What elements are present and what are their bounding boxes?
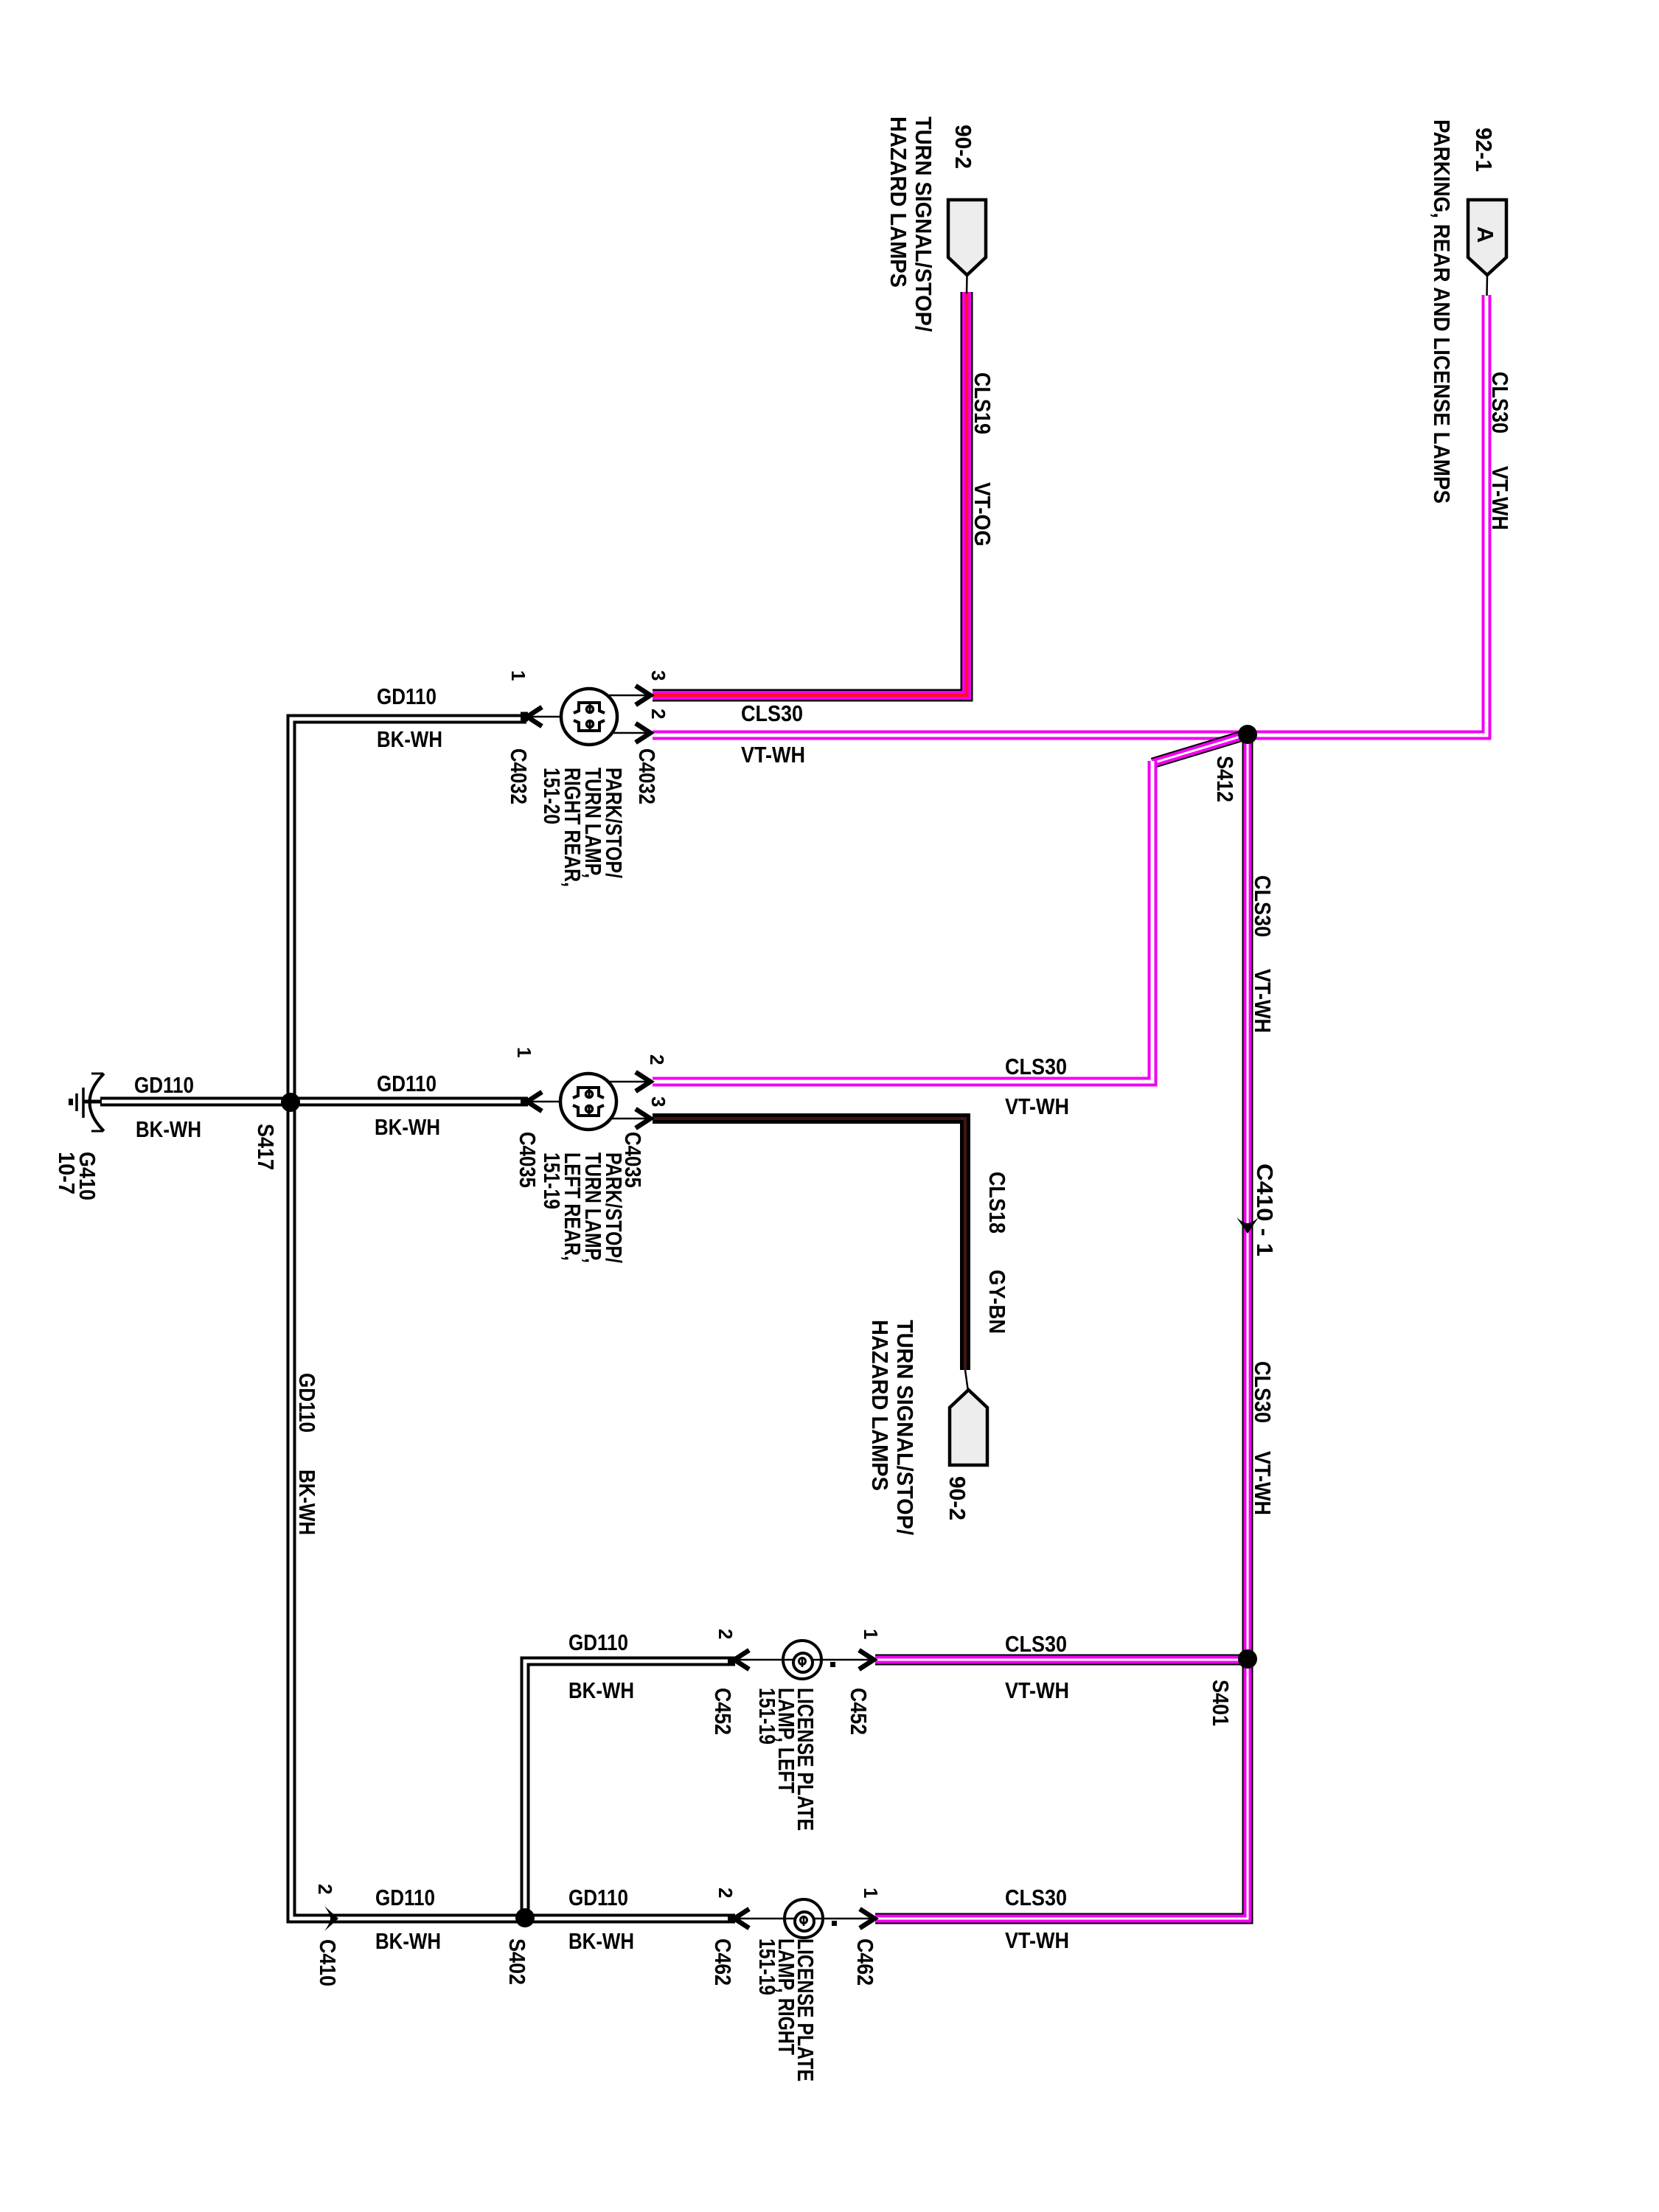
svg-text:GD110: GD110 bbox=[377, 1071, 437, 1096]
svg-text:HAZARD LAMPS: HAZARD LAMPS bbox=[867, 1320, 893, 1491]
svg-text:151-20: 151-20 bbox=[539, 768, 565, 824]
svg-text:2: 2 bbox=[714, 1888, 737, 1898]
lamp C4032 park/stop/turn lamp right rear bbox=[529, 689, 647, 745]
svg-text:PARKING, REAR AND LICENSE LAMP: PARKING, REAR AND LICENSE LAMPS bbox=[1429, 119, 1455, 504]
svg-text:1: 1 bbox=[507, 670, 529, 681]
svg-text:GY-BN: GY-BN bbox=[984, 1270, 1010, 1334]
wire end cap at C452 pin 2 bbox=[728, 1657, 735, 1666]
svg-text:GD110: GD110 bbox=[294, 1373, 320, 1433]
svg-text:3: 3 bbox=[647, 670, 669, 681]
inline connector C410-1 chevron on bus bbox=[1237, 1217, 1259, 1234]
svg-text:BK-WH: BK-WH bbox=[568, 1677, 634, 1703]
pin 3 arrow C4032 bbox=[636, 686, 650, 705]
inline connector C410 pin 2 chevron bbox=[324, 1906, 338, 1931]
off-page connector A / 92-1 (CLS30) bbox=[1468, 200, 1506, 296]
svg-text:VT-WH: VT-WH bbox=[741, 742, 805, 768]
wire end cap at C4035 pin 1 bbox=[521, 1097, 528, 1107]
svg-text:C452: C452 bbox=[846, 1688, 872, 1735]
svg-text:C410: C410 bbox=[315, 1939, 341, 1986]
svg-text:GD110: GD110 bbox=[568, 1885, 628, 1910]
svg-text:BK-WH: BK-WH bbox=[294, 1470, 320, 1535]
svg-text:S417: S417 bbox=[253, 1124, 279, 1170]
svg-text:2: 2 bbox=[646, 1054, 668, 1065]
wire GD110 BK-WH from C4032 pin 1 along long run up to C462 pin 2 bbox=[291, 719, 734, 1919]
wire CLS18 GY-BN from C4035 pin 3 to connector 90-2 bbox=[653, 1119, 965, 1370]
svg-text:BK-WH: BK-WH bbox=[568, 1928, 634, 1954]
svg-text:S412: S412 bbox=[1212, 756, 1238, 802]
svg-text:BK-WH: BK-WH bbox=[136, 1116, 201, 1142]
svg-text:GD110: GD110 bbox=[134, 1072, 194, 1098]
svg-text:VT-WH: VT-WH bbox=[1487, 466, 1513, 530]
wire CLS30 VT-WH from connector A down through S412 to C4032 pin 2 bbox=[653, 295, 1486, 735]
wire end cap at C4032 pin 1 bbox=[521, 712, 528, 722]
svg-text:C4035: C4035 bbox=[515, 1132, 540, 1188]
svg-text:3: 3 bbox=[647, 1096, 669, 1107]
svg-text:2: 2 bbox=[647, 709, 669, 719]
wire end cap at C462 pin 2 bbox=[728, 1914, 735, 1924]
lamp C462 license plate lamp right bbox=[737, 1899, 874, 1938]
svg-text:C462: C462 bbox=[852, 1938, 878, 1986]
svg-text:BK-WH: BK-WH bbox=[375, 1928, 441, 1954]
svg-text:CLS30: CLS30 bbox=[1005, 1054, 1067, 1079]
pin 2 arrow C452 bbox=[734, 1650, 749, 1669]
svg-text:VT-WH: VT-WH bbox=[1005, 1093, 1069, 1119]
svg-text:GD110: GD110 bbox=[375, 1885, 435, 1910]
svg-text:CLS30: CLS30 bbox=[1250, 1361, 1276, 1423]
svg-text:90-2: 90-2 bbox=[950, 125, 976, 169]
svg-text:TURN SIGNAL/STOP/: TURN SIGNAL/STOP/ bbox=[892, 1320, 918, 1535]
svg-text:C4032: C4032 bbox=[506, 748, 532, 804]
pin 2 arrow C4032 bbox=[636, 723, 650, 742]
splice S402 bbox=[515, 1908, 535, 1927]
svg-text:HAZARD LAMPS: HAZARD LAMPS bbox=[886, 116, 911, 288]
ground G410 bbox=[69, 1074, 104, 1131]
svg-text:C410 - 1: C410 - 1 bbox=[1252, 1164, 1278, 1256]
svg-text:10-7: 10-7 bbox=[54, 1152, 80, 1194]
pin 1 arrow C4032 bbox=[527, 707, 542, 726]
svg-text:C462: C462 bbox=[710, 1938, 736, 1986]
svg-text:1: 1 bbox=[860, 1888, 882, 1898]
splice S412 bbox=[1238, 725, 1257, 744]
svg-text:TURN SIGNAL/STOP/: TURN SIGNAL/STOP/ bbox=[911, 116, 936, 332]
svg-text:VT-OG: VT-OG bbox=[970, 482, 995, 546]
svg-text:2: 2 bbox=[314, 1884, 336, 1894]
pin 1 arrow C452 bbox=[859, 1650, 874, 1669]
svg-text:CLS19: CLS19 bbox=[970, 372, 995, 434]
svg-text:90-2: 90-2 bbox=[945, 1476, 970, 1520]
svg-text:BK-WH: BK-WH bbox=[377, 726, 442, 752]
svg-text:S401: S401 bbox=[1208, 1680, 1234, 1726]
splice S401 bbox=[1238, 1649, 1257, 1669]
wire GD110 BK-WH from C4035 pin 1 through S417 to ground G410 bbox=[100, 1097, 526, 1107]
svg-text:C4032: C4032 bbox=[634, 748, 660, 804]
svg-text:2: 2 bbox=[714, 1629, 737, 1639]
off-page connector 90-2 (CLS18) bbox=[950, 1370, 987, 1465]
pin 1 arrow C4035 bbox=[527, 1092, 542, 1111]
splice S417 bbox=[281, 1093, 300, 1112]
svg-text:VT-WH: VT-WH bbox=[1005, 1927, 1069, 1953]
wire GD110 BK-WH from C452 pin 2 to S402 bbox=[525, 1661, 734, 1918]
svg-text:VT-WH: VT-WH bbox=[1250, 969, 1276, 1033]
svg-text:S402: S402 bbox=[504, 1938, 530, 1985]
wire CLS19 VT-OG from connector 90-2 to C4032 pin 3 bbox=[653, 292, 967, 695]
svg-text:92-1: 92-1 bbox=[1471, 128, 1497, 172]
svg-text:CLS30: CLS30 bbox=[1487, 372, 1513, 434]
pin 1 arrow C462 bbox=[860, 1909, 874, 1928]
svg-text:CLS30: CLS30 bbox=[1005, 1885, 1067, 1910]
svg-text:VT-WH: VT-WH bbox=[1005, 1677, 1069, 1703]
wire CLS30 VT-WH diagonal stub at splice S412 bbox=[1152, 734, 1248, 763]
off-page connector 90-2 (CLS19) bbox=[948, 200, 986, 293]
svg-text:CLS30: CLS30 bbox=[1005, 1631, 1067, 1657]
lamp C4035 park/stop/turn lamp left rear bbox=[529, 1074, 647, 1130]
svg-text:1: 1 bbox=[513, 1047, 535, 1057]
svg-text:CLS18: CLS18 bbox=[984, 1172, 1010, 1234]
svg-text:1: 1 bbox=[860, 1629, 882, 1639]
svg-text:151-19: 151-19 bbox=[754, 1938, 780, 1995]
svg-text:A: A bbox=[1472, 226, 1498, 243]
svg-text:BK-WH: BK-WH bbox=[375, 1114, 440, 1140]
svg-text:GD110: GD110 bbox=[568, 1630, 628, 1655]
lamp C452 license plate lamp left bbox=[737, 1641, 873, 1679]
svg-text:GD110: GD110 bbox=[377, 684, 437, 709]
svg-text:CLS30: CLS30 bbox=[741, 700, 803, 726]
pin 2 arrow C4035 bbox=[636, 1072, 650, 1091]
wire CLS30 VT-WH main bus from S412 through S401 to C462 pin 1 bbox=[875, 734, 1248, 1919]
svg-text:151-19: 151-19 bbox=[539, 1152, 565, 1209]
wire CLS30 VT-WH branch from S401 to C452 pin 1 bbox=[875, 1655, 1248, 1666]
svg-text:CLS30: CLS30 bbox=[1250, 875, 1276, 937]
svg-text:151-19: 151-19 bbox=[754, 1688, 780, 1745]
pin 2 arrow C462 bbox=[734, 1909, 749, 1928]
svg-text:C452: C452 bbox=[710, 1688, 736, 1735]
wire CLS30 VT-WH from S412 stub to C4035 pin 2 bbox=[653, 761, 1152, 1082]
pin 3 arrow C4035 bbox=[636, 1109, 650, 1128]
svg-text:VT-WH: VT-WH bbox=[1250, 1451, 1276, 1515]
